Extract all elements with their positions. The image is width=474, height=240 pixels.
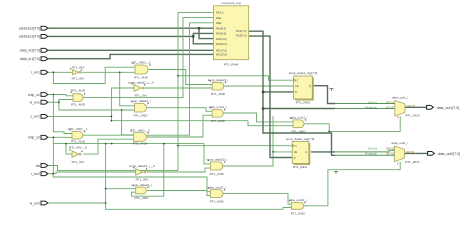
svg-text:RTL_INV__0: RTL_INV__0 (69, 145, 87, 149)
svg-text:CE: CE (295, 84, 299, 88)
svg-text:data_in2[7:0]: data_in2[7:0] (20, 49, 40, 53)
svg-text:RTL_AND: RTL_AND (71, 139, 86, 143)
svg-text:temp_data21_i__0: temp_data21_i__0 (129, 164, 155, 168)
svg-text:RTL_REG: RTL_REG (293, 165, 308, 169)
svg-text:WA1[4:0]: WA1[4:0] (216, 37, 227, 41)
svg-text:I0[7:0]: I0[7:0] (386, 146, 394, 150)
svg-text:C: C (295, 144, 297, 148)
svg-text:WCLK: WCLK (216, 11, 224, 15)
svg-text:WD1[7:0]: WD1[7:0] (216, 49, 227, 53)
svg-text:I1[7:0]: I1[7:0] (386, 105, 394, 109)
svg-text:address2[4:0]: address2[4:0] (19, 27, 40, 31)
svg-text:RTL_REG: RTL_REG (296, 100, 311, 104)
svg-text:data_out12_i: data_out12_i (209, 105, 227, 109)
svg-text:WE2: WE2 (216, 21, 222, 25)
svg-text:c_en1: c_en1 (30, 115, 40, 119)
svg-text:chip_s1: chip_s1 (28, 93, 40, 97)
svg-text:data_out22_i: data_out22_i (208, 185, 226, 189)
svg-text:S: S (397, 115, 399, 119)
svg-text:RTL_AND: RTL_AND (211, 92, 226, 96)
svg-text:RTL_AND__1: RTL_AND__1 (68, 127, 87, 131)
svg-text:WE1: WE1 (216, 16, 222, 20)
svg-text:data_out21_i: data_out21_i (289, 198, 307, 202)
svg-text:data_out2_i: data_out2_i (391, 141, 407, 145)
svg-text:RTL_AND: RTL_AND (291, 212, 306, 216)
svg-text:WA2[4:0]: WA2[4:0] (216, 42, 227, 46)
svg-text:RTL_AND: RTL_AND (133, 142, 148, 146)
svg-text:data_out1_i: data_out1_i (392, 95, 408, 99)
svg-text:O[7:0]: O[7:0] (406, 150, 414, 154)
svg-text:S=1'b1: S=1'b1 (368, 146, 377, 150)
svg-text:data_out2[7:0]: data_out2[7:0] (438, 152, 460, 156)
svg-text:Q: Q (305, 150, 307, 154)
svg-text:temp_data1_reg[7:0]: temp_data1_reg[7:0] (289, 71, 318, 75)
svg-text:memory2_reg: memory2_reg (221, 1, 240, 5)
svg-text:I1[7:0]: I1[7:0] (386, 151, 394, 155)
svg-text:RTL_AND: RTL_AND (71, 102, 86, 106)
svg-text:RTL_INV: RTL_INV (72, 76, 86, 80)
svg-text:address1[4:0]: address1[4:0] (19, 35, 40, 39)
svg-text:S=default: S=default (365, 151, 377, 155)
svg-text:RTL_AND: RTL_AND (71, 89, 86, 93)
svg-text:RA2[4:0]: RA2[4:0] (216, 32, 226, 36)
svg-text:S=1'b1: S=1'b1 (368, 101, 377, 105)
svg-text:temp_data11_i: temp_data11_i (130, 99, 151, 103)
svg-text:D: D (294, 156, 296, 160)
svg-text:RA1[4:0]: RA1[4:0] (216, 26, 226, 30)
svg-text:RTL_AND: RTL_AND (133, 114, 148, 118)
svg-text:RTL_AND__2: RTL_AND__2 (130, 128, 149, 132)
svg-text:RTL_MUX: RTL_MUX (406, 114, 420, 118)
svg-text:WD2[7:0]: WD2[7:0] (216, 53, 227, 57)
svg-text:w_en2: w_en2 (30, 201, 40, 205)
svg-text:RTL_INV: RTL_INV (72, 160, 86, 164)
svg-text:r_en2: r_en2 (31, 172, 40, 176)
svg-text:D: D (295, 90, 297, 94)
svg-text:temp_data2_reg[7:0]: temp_data2_reg[7:0] (286, 137, 315, 141)
svg-text:RTL_RAM: RTL_RAM (224, 63, 239, 67)
svg-text:data_in1[7:0]: data_in1[7:0] (20, 57, 40, 61)
svg-text:RTL_AND: RTL_AND (291, 129, 306, 133)
svg-text:RTL_AND: RTL_AND (134, 76, 149, 80)
svg-text:RTL_INV: RTL_INV (135, 93, 149, 97)
svg-text:RTL_MUX: RTL_MUX (405, 160, 419, 164)
svg-text:RTL_AND: RTL_AND (134, 196, 149, 200)
svg-text:w_en1: w_en1 (30, 101, 40, 105)
svg-text:RTL_INV: RTL_INV (136, 178, 150, 182)
svg-text:I0[7:0]: I0[7:0] (386, 101, 394, 105)
svg-text:S=default: S=default (365, 105, 377, 109)
svg-text:RTL_AND__0: RTL_AND__0 (131, 61, 150, 65)
svg-text:RTL_AND: RTL_AND (210, 172, 225, 176)
svg-text:CE: CE (294, 150, 298, 154)
svg-text:r_en1: r_en1 (31, 71, 40, 75)
svg-text:RTL_AND: RTL_AND (211, 119, 226, 123)
svg-text:S: S (397, 162, 399, 166)
svg-text:Q: Q (309, 84, 311, 88)
svg-text:C: C (297, 78, 299, 82)
svg-text:RO1[7:0]: RO1[7:0] (236, 29, 247, 33)
svg-text:temp_data20_i: temp_data20_i (206, 158, 227, 162)
svg-text:RTL_INV: RTL_INV (72, 65, 86, 69)
svg-text:RO2[7:0]: RO2[7:0] (236, 34, 247, 38)
svg-text:data_out11_i: data_out11_i (290, 116, 308, 120)
svg-text:data_out1[7:0]: data_out1[7:0] (437, 106, 459, 110)
svg-text:RTL_AND: RTL_AND (210, 199, 225, 203)
svg-text:clk: clk (36, 164, 41, 168)
svg-text:chip_s2: chip_s2 (28, 136, 40, 140)
svg-text:O[7:0]: O[7:0] (407, 104, 415, 108)
